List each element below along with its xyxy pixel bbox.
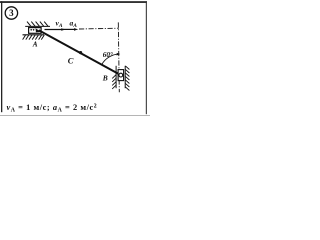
frame left border (1, 1, 2, 112)
velocity arrow vA (45, 29, 64, 31)
svg-text:A: A (32, 40, 38, 48)
horizontal dash-dot axis (79, 27, 119, 30)
guide left rail at B (115, 66, 117, 88)
slider block A (29, 28, 41, 34)
problem number badge circle (5, 7, 17, 19)
frame right border (146, 1, 147, 114)
lower guide hatching (23, 35, 45, 40)
svg-text:vA = 1 м/с; aA = 2 м/с2: vA = 1 м/с; aA = 2 м/с2 (7, 103, 98, 114)
guide right hatching (125, 66, 129, 91)
svg-text:3: 3 (9, 8, 14, 18)
svg-text:B: B (102, 73, 108, 82)
frame bottom border (faint) (0, 115, 150, 116)
slider A roller dots (30, 29, 32, 31)
guide right rail at B (124, 66, 126, 88)
lower guide wall line at A (23, 34, 45, 36)
slider block B (118, 70, 124, 81)
frame top border (0, 1, 147, 3)
pivot joint at B (119, 73, 123, 77)
vertical dash-dot axis (118, 22, 119, 92)
pivot joint at A (36, 28, 42, 32)
upper guide wall line at A (25, 25, 50, 27)
acceleration arrow aA (63, 28, 76, 30)
angle arc arrowhead (117, 53, 121, 56)
svg-text:C: C (68, 55, 74, 65)
guide left hatching (112, 75, 116, 89)
rod AB (link) (39, 30, 121, 75)
upper guide hatching (27, 22, 48, 27)
angle arc 60 deg (102, 54, 119, 65)
point C dot (79, 51, 82, 54)
svg-text:60°: 60° (103, 51, 113, 59)
